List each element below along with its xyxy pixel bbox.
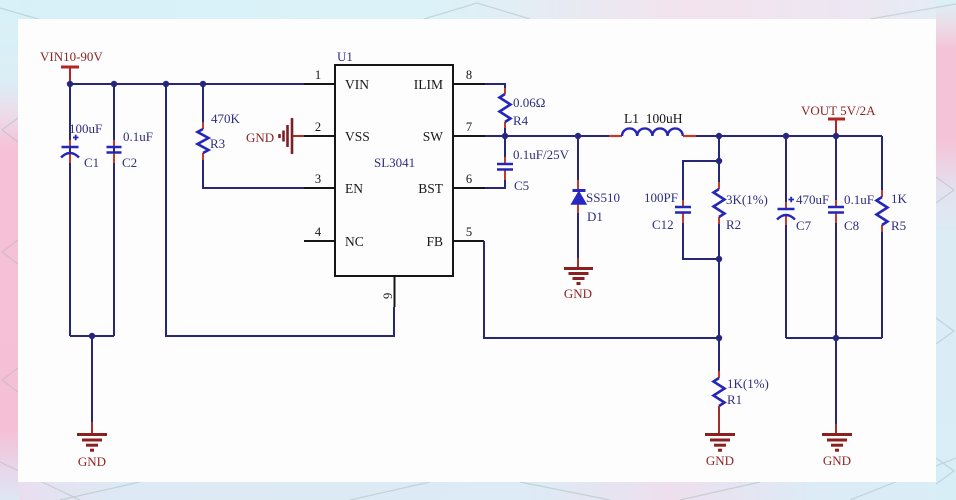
resistor R2 xyxy=(714,182,768,232)
pin 8 ILIM xyxy=(453,68,485,84)
wire L1 to VOUT rail xyxy=(696,135,882,137)
pin 3 EN xyxy=(304,172,335,188)
svg-text:3K(1%): 3K(1%) xyxy=(726,192,768,207)
svg-text:R3: R3 xyxy=(210,136,225,151)
pin 9 xyxy=(381,276,395,307)
svg-text:SS510: SS510 xyxy=(586,190,620,205)
svg-text:C1: C1 xyxy=(84,155,99,170)
resistor R4 xyxy=(500,88,546,136)
wire FB xyxy=(483,241,719,338)
wire top rail VIN xyxy=(70,83,304,85)
svg-text:0.1uF: 0.1uF xyxy=(123,129,153,144)
power flag VIN10-90V xyxy=(40,49,103,84)
junction node VOUT-R2 xyxy=(716,133,722,139)
wire C1-C2 bottom xyxy=(70,335,114,337)
wire R5 vertical xyxy=(881,136,883,338)
svg-text:GND: GND xyxy=(706,453,734,468)
svg-text:VIN10-90V: VIN10-90V xyxy=(40,49,103,64)
junction node C8 bottom xyxy=(833,335,839,341)
svg-text:8: 8 xyxy=(466,68,472,82)
svg-text:SL3041: SL3041 xyxy=(374,155,415,170)
svg-text:0.1uF/25V: 0.1uF/25V xyxy=(513,147,570,162)
pin 6 BST xyxy=(453,172,485,188)
inductor L1 xyxy=(609,111,696,136)
svg-text:1K(1%): 1K(1%) xyxy=(727,376,769,391)
wire C8 vertical xyxy=(835,136,837,338)
junction node SW-D1 xyxy=(575,133,581,139)
pin 2 VSS xyxy=(304,120,335,136)
junction node SW-R4-C5 xyxy=(502,133,508,139)
wire SW node xyxy=(485,135,609,137)
svg-text:GND: GND xyxy=(564,286,592,301)
svg-text:0.1uF: 0.1uF xyxy=(844,192,874,207)
capacitor C2 xyxy=(107,129,153,170)
svg-text:100PF: 100PF xyxy=(644,190,678,205)
wire R3 branch to EN xyxy=(203,84,304,188)
junction node C12 top xyxy=(716,158,722,164)
svg-text:1: 1 xyxy=(315,68,321,82)
svg-text:VIN: VIN xyxy=(345,77,369,92)
svg-text:C8: C8 xyxy=(844,218,859,233)
svg-text:VOUT 5V/2A: VOUT 5V/2A xyxy=(801,103,876,118)
power flag VOUT 5V/2A xyxy=(801,103,876,136)
capacitor C7 xyxy=(777,192,829,233)
svg-text:470uF: 470uF xyxy=(796,192,829,207)
svg-text:6: 6 xyxy=(466,172,472,186)
svg-text:9: 9 xyxy=(381,293,395,299)
junction node C2 xyxy=(111,81,117,87)
junction node FB-R1 xyxy=(716,335,722,341)
svg-text:C2: C2 xyxy=(122,155,137,170)
svg-text:L1 100uH: L1 100uH xyxy=(624,111,683,126)
junction node C12 bottom xyxy=(716,256,722,262)
svg-text:EN: EN xyxy=(345,181,363,196)
capacitor C5 xyxy=(485,136,570,193)
junction node VOUT-C8 xyxy=(833,133,839,139)
svg-text:R1: R1 xyxy=(727,392,742,407)
pin 5 FB xyxy=(453,225,483,241)
pin 1 VIN xyxy=(304,68,335,84)
svg-text:SW: SW xyxy=(423,129,444,144)
junction node mid drop xyxy=(163,81,169,87)
svg-text:D1: D1 xyxy=(587,209,603,224)
svg-text:100uF: 100uF xyxy=(69,121,102,136)
wire VIN to pin9 xyxy=(166,84,394,336)
svg-text:5: 5 xyxy=(466,225,472,239)
svg-text:U1: U1 xyxy=(337,49,353,64)
op-amp / regulator IC U1 xyxy=(335,49,453,276)
svg-text:1K: 1K xyxy=(891,191,908,206)
svg-text:4: 4 xyxy=(315,225,322,239)
svg-text:VSS: VSS xyxy=(345,129,370,144)
ground R1 xyxy=(705,435,735,469)
junction node R3 xyxy=(200,81,206,87)
capacitor C1 xyxy=(61,121,102,170)
svg-text:R5: R5 xyxy=(891,218,906,233)
wire R2 branch xyxy=(718,136,720,338)
wire C12 bracket xyxy=(683,161,719,259)
resistor R5 xyxy=(877,190,908,233)
ground output (C8) xyxy=(822,424,852,468)
svg-text:R2: R2 xyxy=(726,217,741,232)
svg-text:ILIM: ILIM xyxy=(414,77,443,92)
svg-text:GND: GND xyxy=(823,453,851,468)
svg-text:2: 2 xyxy=(315,120,321,134)
wire C7 vertical xyxy=(785,136,787,338)
wire pin8 to R4 xyxy=(485,84,505,89)
wire left ground drop xyxy=(91,336,93,422)
svg-text:C12: C12 xyxy=(652,217,674,232)
svg-text:BST: BST xyxy=(418,181,444,196)
wire output bottom xyxy=(786,337,882,339)
svg-text:470K: 470K xyxy=(211,111,241,126)
ground flag at VSS pin 2 xyxy=(246,118,304,154)
resistor R3 xyxy=(198,111,241,160)
junction node VOUT-C7 xyxy=(783,133,789,139)
svg-text:R4: R4 xyxy=(513,113,529,128)
svg-text:GND: GND xyxy=(246,130,274,145)
svg-text:3: 3 xyxy=(315,172,321,186)
resistor R1 xyxy=(714,338,769,434)
junction node C1C2 ground xyxy=(89,333,95,339)
svg-text:C5: C5 xyxy=(514,178,529,193)
svg-text:7: 7 xyxy=(466,120,472,134)
svg-text:NC: NC xyxy=(345,234,364,249)
ground left (C1/C2) xyxy=(77,422,107,469)
svg-text:0.06Ω: 0.06Ω xyxy=(513,95,545,110)
ground D1 xyxy=(564,258,593,301)
diode D1 SS510 xyxy=(572,136,620,258)
wire C1 vertical xyxy=(69,84,71,336)
svg-text:C7: C7 xyxy=(796,218,812,233)
capacitor C8 xyxy=(828,192,874,233)
capacitor C12 xyxy=(644,190,691,232)
junction node VIN-C1 xyxy=(67,81,73,87)
pin 7 SW xyxy=(453,120,485,136)
wire C8 ground drop xyxy=(835,338,837,424)
svg-text:FB: FB xyxy=(426,234,443,249)
svg-text:GND: GND xyxy=(78,454,106,469)
wire C2 vertical xyxy=(113,84,115,336)
pin 4 NC xyxy=(304,225,335,241)
